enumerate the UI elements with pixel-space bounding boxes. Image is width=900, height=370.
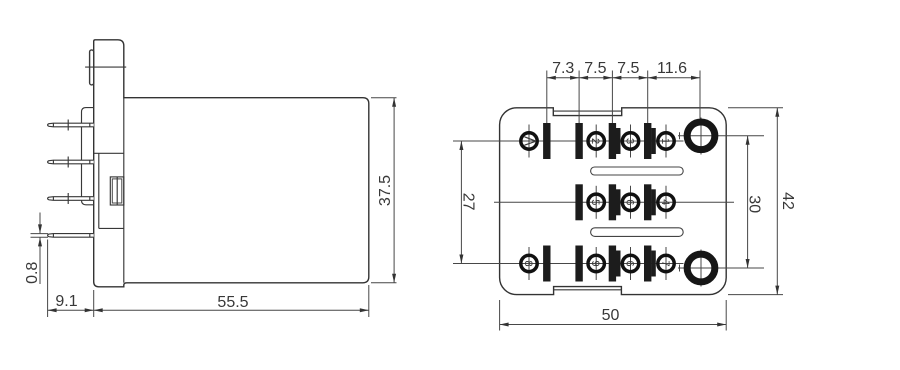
svg-text:7.5: 7.5 <box>617 60 639 77</box>
svg-text:0.8: 0.8 <box>24 262 41 284</box>
svg-text:9: 9 <box>589 260 601 266</box>
svg-text:9.1: 9.1 <box>55 293 77 310</box>
svg-text:5: 5 <box>589 199 601 205</box>
svg-text:30: 30 <box>746 195 763 213</box>
svg-text:7.3: 7.3 <box>552 60 574 77</box>
svg-text:27: 27 <box>460 193 477 211</box>
svg-text:50: 50 <box>602 307 620 324</box>
svg-text:11.6: 11.6 <box>657 60 687 77</box>
svg-text:4: 4 <box>659 199 671 205</box>
svg-text:7.5: 7.5 <box>584 60 606 77</box>
svg-text:55.5: 55.5 <box>217 294 248 311</box>
svg-text:37.5: 37.5 <box>377 175 394 206</box>
svg-text:6: 6 <box>624 199 636 205</box>
svg-text:6: 6 <box>624 260 636 266</box>
svg-text:3: 3 <box>624 138 636 144</box>
svg-text:7: 7 <box>659 260 671 266</box>
svg-text:2: 2 <box>589 138 601 144</box>
svg-text:1: 1 <box>659 138 671 144</box>
svg-text:42: 42 <box>779 192 796 210</box>
svg-text:8: 8 <box>522 260 534 266</box>
